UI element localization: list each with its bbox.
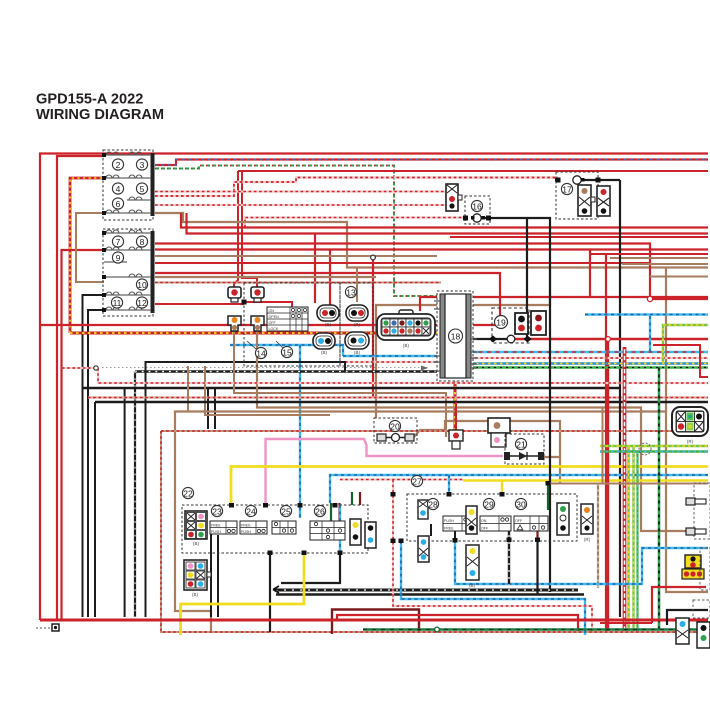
- wire yellow stub x502: [501, 481, 503, 495]
- coil 9: [112, 252, 123, 263]
- wire green/yellow elbow x663: [663, 325, 708, 364]
- wire brown drop to oval B2: [356, 268, 358, 303]
- svg-text:PUSH: PUSH: [241, 530, 251, 534]
- wire red fuse feeds: [234, 171, 257, 287]
- wire black left vertical 1: [83, 295, 105, 617]
- wire red/white y382: [62, 368, 708, 383]
- wire red y613 lower: [337, 615, 578, 631]
- coil 5: [136, 183, 147, 194]
- wire red y232: [187, 213, 709, 234]
- svg-text:29: 29: [484, 499, 494, 509]
- coil 6: [112, 198, 123, 209]
- wire red stub to diode feed: [455, 402, 457, 433]
- wire brown box B y256: [155, 255, 437, 257]
- switch 24: [240, 505, 267, 534]
- wire red y304 to switch box: [155, 303, 244, 305]
- wire red/white y358: [470, 357, 708, 359]
- wire red/white tail feed: [155, 178, 558, 197]
- svg-text:25: 25: [281, 506, 291, 516]
- wire black/white x509: [508, 528, 510, 585]
- wire red y263: [155, 262, 650, 264]
- svg-text:12: 12: [137, 298, 147, 308]
- wire pink: [266, 439, 504, 505]
- svg-text:2: 2: [116, 160, 121, 170]
- wire black 24 output: [217, 535, 219, 617]
- wire red y237: [450, 236, 708, 238]
- unit 13 dashed box: [340, 283, 373, 366]
- switch 26: [310, 505, 345, 540]
- wire dark green x659 vertical: [658, 368, 661, 631]
- svg-text:(B): (B): [192, 592, 199, 597]
- svg-text:27: 27: [412, 476, 422, 486]
- wire sky blue y475 bus: [330, 475, 708, 503]
- wire black bottom right: [667, 610, 708, 625]
- wire red y248 corner x650: [155, 244, 708, 300]
- wire black 30 lower: [536, 540, 538, 594]
- wire red verticals x315 x330: [315, 234, 330, 307]
- coil 3: [136, 159, 147, 170]
- wire dotted reference line: [102, 367, 428, 369]
- lamp 16 assembly: [446, 184, 490, 224]
- wire brown stub x188: [187, 366, 189, 412]
- wire red/black dashed y431: [161, 430, 708, 432]
- svg-text:OFF: OFF: [515, 519, 523, 523]
- coil 8: [136, 236, 147, 247]
- svg-text:10: 10: [137, 280, 147, 290]
- wire black x145 vertical: [146, 362, 346, 617]
- switch 28: [427, 498, 474, 531]
- connector pin R lower: [581, 504, 593, 542]
- wire maroon 26 internal: [338, 503, 340, 521]
- bottom right connector b: [697, 622, 710, 648]
- connector pin b: [251, 316, 264, 331]
- wire brown branch down x666: [666, 268, 708, 593]
- svg-text:20: 20: [390, 421, 400, 431]
- svg-text:OFF: OFF: [481, 527, 489, 531]
- arrow merge bw: [273, 586, 281, 593]
- fuse symbol b: [251, 287, 264, 302]
- junction circle 650: [647, 296, 652, 301]
- connector pin 28 lower: [418, 536, 429, 562]
- wire brown y276.5 right: [650, 276, 708, 278]
- wire brown y415: [205, 366, 330, 415]
- connector pin 27a: [418, 500, 428, 519]
- wire red left rail outer: [40, 154, 708, 621]
- svg-text:(B): (B): [469, 583, 476, 588]
- svg-text:(B): (B): [354, 350, 361, 355]
- wire maroon 30 output: [536, 524, 538, 540]
- wire yellow box22 S-path: [181, 553, 305, 635]
- main switch dashed box: [244, 283, 340, 366]
- wire red x606 vertical: [605, 254, 607, 631]
- wire yellow y480.5 right: [463, 479, 708, 481]
- wire dark green stub 26a: [351, 492, 353, 505]
- svg-text:(R): (R): [584, 537, 591, 542]
- wire brown y483.5: [548, 408, 708, 484]
- wire sky blue x340 lower: [340, 505, 585, 635]
- svg-text:14: 14: [256, 348, 266, 358]
- wire brown from box B y277: [155, 276, 376, 278]
- wire brown left box feed: [76, 213, 104, 282]
- svg-text:9: 9: [116, 253, 121, 263]
- wire green/blue y451.5: [600, 450, 708, 452]
- wire sky blue y356 to 18: [343, 355, 441, 357]
- wire black/white dash-dot y371.5: [135, 370, 441, 372]
- junction ref circle: [639, 443, 651, 455]
- wire red/black x161 vertical: [161, 431, 708, 632]
- main switch table: [267, 307, 308, 331]
- svg-text:26: 26: [315, 506, 325, 516]
- svg-text:(B): (B): [321, 350, 328, 355]
- wire brown from box A to right run: [155, 213, 708, 268]
- wire dark green 26 internal: [330, 503, 332, 521]
- wire yellow main bus: [231, 467, 708, 506]
- wire green dash-dot: [155, 166, 440, 297]
- wire red x373 vertical: [372, 259, 374, 397]
- connector grid 22 lower: [184, 560, 211, 597]
- svg-text:7: 7: [116, 237, 121, 247]
- wire maroon stub 26b: [359, 492, 361, 505]
- svg-text:GPD155-A 2022: GPD155-A 2022: [36, 92, 143, 108]
- wire brown/red y282.5: [155, 282, 441, 284]
- wire sky blue x300 vertical: [299, 345, 301, 518]
- coil 10: [136, 279, 147, 290]
- svg-text:FREE: FREE: [241, 524, 251, 528]
- wire brown x601 lower: [597, 484, 599, 589]
- oval connector B4: [345, 332, 369, 355]
- svg-text:24: 24: [246, 506, 256, 516]
- svg-text:3: 3: [140, 160, 145, 170]
- wire blue/red y352: [470, 351, 708, 353]
- wire sky blue y345: [230, 345, 343, 356]
- wire green/yellow y446: [600, 445, 708, 447]
- diode 21 assembly: [449, 418, 544, 464]
- coil 4: [112, 183, 123, 194]
- switch 29: [480, 498, 511, 531]
- connector pin 27b: [557, 503, 569, 535]
- wire sky blue lower right steps: [455, 540, 708, 584]
- svg-text:23: 23: [212, 506, 222, 516]
- wire black 21 link: [420, 456, 505, 458]
- relay unit 18: [434, 291, 477, 381]
- wire black y402 bus: [95, 401, 708, 404]
- wire black/white thick y590: [276, 589, 578, 592]
- wire blue/yellow y363: [470, 362, 708, 364]
- coil 11: [111, 297, 122, 308]
- svg-text:5: 5: [140, 184, 145, 194]
- wire black 23 output: [210, 531, 212, 617]
- wire red y227: [181, 213, 708, 228]
- wire black x527 vertical: [526, 218, 528, 339]
- svg-text:21: 21: [516, 439, 526, 449]
- fuse box lower right: [682, 548, 710, 590]
- wire dark green stub x548: [547, 484, 549, 511]
- svg-text:PUSH: PUSH: [444, 519, 454, 523]
- wire black x620 vertical: [619, 180, 621, 617]
- wire red left rail 2: [57, 156, 104, 620]
- svg-text:FREE: FREE: [444, 527, 454, 531]
- connector pin 28b yellow: [466, 506, 477, 534]
- connector bullet x96: [94, 366, 98, 370]
- wire black y388 bus: [83, 387, 620, 389]
- svg-text:ON: ON: [269, 309, 275, 313]
- wire maroon bottom: [332, 610, 419, 635]
- wire red/yellow main y333: [70, 333, 455, 433]
- junction circle green: [435, 627, 440, 632]
- wire black x95 stub: [94, 402, 96, 617]
- wire red y273 to x500: [155, 273, 500, 325]
- wire brown bridge 20 to 21: [412, 421, 560, 484]
- wire black y594: [276, 593, 584, 595]
- wire dark green bottom: [363, 628, 708, 630]
- svg-text:(B): (B): [354, 322, 361, 327]
- node 14: [247, 341, 267, 359]
- wire black stubs x208 x215: [208, 387, 215, 429]
- wire red left rail 3: [62, 250, 105, 620]
- wire red/yellow vertical: [70, 178, 104, 333]
- wire black left vertical 2: [88, 310, 104, 617]
- wire brown y410: [175, 412, 666, 633]
- wire black 17 tail: [581, 179, 620, 181]
- wire red y252 branch down x590: [420, 250, 708, 312]
- wire red/white to 16 lamp: [245, 218, 466, 228]
- wire sky blue stub x449: [448, 475, 450, 494]
- wire red y254 right: [590, 253, 708, 255]
- connector pin a: [228, 316, 241, 331]
- svg-text:(B): (B): [193, 541, 200, 546]
- wire red/white y362 to 18: [345, 361, 441, 363]
- wire red/white y479: [340, 478, 463, 480]
- connector bullet x373: [371, 255, 376, 260]
- wire red y252: [155, 248, 708, 250]
- handlebar switch box 22: [182, 487, 368, 553]
- coil 2: [112, 159, 123, 170]
- wire brown y264 right: [622, 263, 708, 265]
- wire red y339 long: [515, 338, 708, 340]
- svg-text:17: 17: [562, 184, 572, 194]
- wire brown branch down x550 to 20: [376, 268, 550, 419]
- wire red/white y592 lower: [393, 480, 592, 632]
- svg-text:LOCK: LOCK: [269, 327, 279, 331]
- wire red switch internal: [244, 302, 292, 307]
- svg-text:OFF: OFF: [269, 321, 277, 325]
- handlebar switch box 27: [407, 475, 577, 541]
- svg-text:11: 11: [113, 298, 122, 308]
- connector R 6pin: [672, 407, 708, 444]
- oval connector B3: [313, 333, 335, 355]
- svg-text:15: 15: [282, 347, 292, 357]
- svg-text:4: 4: [116, 184, 121, 194]
- wire black box22 elbow: [281, 553, 340, 583]
- svg-text:19: 19: [496, 317, 506, 327]
- svg-text:22: 22: [183, 488, 193, 498]
- wire black 27 outputs: [431, 524, 455, 540]
- node 15: [276, 341, 293, 358]
- svg-text:(B): (B): [403, 343, 410, 348]
- svg-text:PUSH: PUSH: [211, 530, 221, 534]
- svg-text:(R): (R): [687, 439, 694, 444]
- svg-text:FREE: FREE: [211, 524, 221, 528]
- wire brown y404: [257, 328, 688, 531]
- connector pin 26b: [365, 522, 376, 548]
- wire red/white y191.5: [155, 190, 446, 192]
- lamp 17 assembly: [555, 172, 610, 219]
- node 13: [345, 286, 356, 297]
- wire black 19 lamp circuit: [470, 338, 507, 340]
- wire red/white y205: [155, 204, 446, 206]
- wire brown/red y397: [88, 396, 708, 398]
- switch 23: [210, 505, 237, 534]
- bottom right connector a: [676, 618, 689, 644]
- wire red y623 stub: [600, 622, 652, 624]
- svg-text:13: 13: [346, 287, 356, 297]
- wire green/yellow x633 vertical: [627, 446, 629, 631]
- battery terminal: [36, 624, 59, 631]
- svg-text:16: 16: [472, 201, 482, 211]
- svg-text:(B): (B): [325, 322, 332, 327]
- wire red y325 long: [40, 324, 500, 326]
- svg-text:OPEN: OPEN: [269, 315, 280, 319]
- connector 12pin B: [377, 310, 435, 348]
- bottom right dashed box: [693, 600, 710, 618]
- wire red/white x624 striped vertical: [623, 347, 626, 631]
- wire black x124 vertical: [124, 388, 126, 617]
- wire black/white x135 vertical: [134, 372, 136, 618]
- wire black x550 vertical: [481, 218, 550, 592]
- connector block box B: [102, 229, 155, 316]
- svg-text:6: 6: [116, 199, 121, 209]
- fuse 20 assembly: [374, 418, 417, 443]
- switch 30: [514, 498, 548, 531]
- wire green/blue x637.5 vertical: [636, 452, 638, 632]
- lamp 19 assembly: [492, 308, 546, 343]
- junction circle 608: [606, 337, 611, 342]
- wire red x608 vertical: [607, 339, 609, 631]
- wire brown y393: [234, 328, 446, 437]
- wire sky blue y314 right: [585, 315, 708, 352]
- svg-text:28: 28: [428, 499, 438, 509]
- svg-text:ON: ON: [481, 519, 487, 523]
- connector grid 22 upper: [185, 511, 207, 546]
- connector block box A: [102, 150, 155, 220]
- wire red y171: [238, 170, 708, 172]
- wire red/blue top bus: [155, 160, 708, 166]
- oval connector B2: [346, 305, 368, 327]
- arrow dotted end: [421, 366, 428, 371]
- wire red main bottom bus: [40, 619, 708, 622]
- oval connector B1: [317, 305, 339, 327]
- svg-text:30: 30: [516, 499, 526, 509]
- wire brown y258 right: [610, 257, 708, 259]
- link connectors right: [686, 483, 710, 539]
- connector pin 26a yellow: [350, 519, 361, 545]
- wire green/yellow x640 vertical: [632, 446, 634, 631]
- wire red x700 corner: [653, 345, 708, 377]
- wire red bottom right corner: [652, 587, 706, 623]
- fuse symbol a: [228, 287, 241, 302]
- connector grid 29 lower: [466, 545, 479, 588]
- coil 7: [112, 236, 123, 247]
- svg-text:8: 8: [140, 237, 145, 247]
- svg-text:18: 18: [451, 331, 461, 341]
- coil 12: [136, 297, 147, 308]
- wire black box22 down x270: [269, 553, 271, 632]
- svg-text:WIRING DIAGRAM: WIRING DIAGRAM: [36, 107, 164, 123]
- switch 25: [272, 505, 296, 534]
- wire green/black y367.5: [470, 366, 708, 368]
